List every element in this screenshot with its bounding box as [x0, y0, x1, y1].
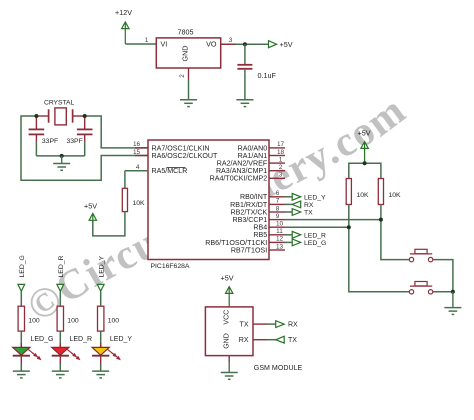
svg-text:VI: VI	[161, 40, 168, 49]
svg-text:+5V: +5V	[280, 40, 293, 49]
wire	[100, 331, 102, 347]
wire R2 down to button2	[349, 205, 410, 292]
resistor R5 100	[57, 306, 63, 331]
wire button1 right	[433, 260, 453, 292]
MCU U1 PIC16F628A	[148, 140, 269, 270]
svg-text:0.1uF: 0.1uF	[258, 71, 277, 80]
svg-text:GSM MODULE: GSM MODULE	[254, 364, 303, 372]
pin 2 stub	[188, 68, 190, 79]
pin 3 wire	[221, 43, 269, 45]
ground	[180, 100, 197, 107]
wire	[20, 331, 22, 347]
power flag +5V (pullups)	[358, 129, 371, 164]
wire	[100, 291, 102, 306]
svg-text:6: 6	[276, 190, 280, 197]
push button S2	[409, 282, 433, 294]
svg-text:PIC16F628A: PIC16F628A	[151, 263, 190, 270]
wire	[20, 291, 22, 306]
capacitor C2 33PF	[29, 116, 59, 156]
svg-text:TX: TX	[240, 322, 249, 329]
svg-text:GND: GND	[224, 333, 231, 349]
pin 13 stub	[269, 249, 285, 251]
svg-text:RX: RX	[239, 337, 249, 344]
svg-text:+5V: +5V	[358, 129, 371, 138]
pin 8 port TX	[269, 209, 313, 217]
port LED_G in	[18, 284, 25, 291]
svg-text:33PF: 33PF	[42, 138, 58, 145]
svg-text:100: 100	[67, 317, 79, 324]
svg-text:+5V: +5V	[221, 274, 234, 283]
pin 16 stub	[135, 147, 148, 149]
svg-text:7: 7	[276, 198, 280, 205]
LED column G	[13, 255, 54, 378]
power flag +5V (GSM)	[221, 274, 234, 307]
watermark	[40, 124, 398, 323]
wire caps bottom	[36, 155, 84, 157]
resistor R6 100	[98, 306, 104, 331]
svg-text:3: 3	[229, 37, 233, 44]
svg-text:10K: 10K	[389, 192, 402, 199]
svg-text:LED_R: LED_R	[304, 232, 326, 239]
svg-text:TX: TX	[304, 210, 313, 217]
pin 10 wire RB4	[285, 226, 349, 228]
svg-text:RA5/MCLR: RA5/MCLR	[152, 167, 188, 175]
svg-text:13: 13	[276, 243, 284, 250]
pin 4 stub	[135, 170, 148, 172]
ground	[52, 371, 69, 378]
port LED_Y in	[97, 284, 104, 291]
wire	[20, 356, 22, 364]
svg-text:10K: 10K	[133, 200, 146, 207]
pin 6 port LED_Y	[269, 193, 326, 201]
svg-text:LED_R: LED_R	[70, 336, 93, 343]
svg-text:10K: 10K	[357, 192, 370, 199]
wire R3 down to button1	[381, 205, 409, 260]
svg-text:2: 2	[279, 164, 283, 171]
svg-text:+12V: +12V	[115, 8, 132, 17]
resistor R2 10K	[346, 179, 369, 205]
wire	[125, 43, 156, 45]
right chip pins 17,18,1,2,3 stubs	[269, 148, 285, 178]
svg-text:LED_Y: LED_Y	[110, 336, 133, 343]
pin 7 port RX	[269, 201, 314, 209]
power flag +5V (MCLR)	[84, 201, 97, 222]
GSM TX port RX	[253, 321, 298, 329]
node junction pin10/R2	[347, 225, 351, 229]
wire	[59, 356, 61, 364]
svg-text:LED_Y: LED_Y	[304, 194, 326, 201]
pin 12 port LED_G	[269, 239, 326, 247]
svg-text:LED_Y: LED_Y	[98, 255, 105, 277]
svg-text:3: 3	[279, 172, 283, 179]
node junction	[243, 42, 247, 46]
svg-text:RX: RX	[288, 322, 298, 329]
svg-text:11: 11	[276, 228, 283, 235]
wire	[59, 331, 61, 347]
svg-text:LED_G: LED_G	[19, 255, 26, 277]
svg-text:CRYSTAL: CRYSTAL	[44, 99, 75, 106]
wire button2 right	[433, 291, 453, 293]
crystal X1	[36, 99, 84, 125]
ground	[13, 371, 30, 378]
svg-text:10: 10	[276, 221, 284, 228]
resistor R4 100	[18, 306, 24, 331]
svg-text:9: 9	[276, 213, 280, 220]
svg-text:15: 15	[133, 149, 141, 156]
resistor R1 10K (MCLR pullup)	[93, 171, 148, 236]
wire pullup top rail	[349, 163, 381, 178]
wire	[59, 291, 61, 306]
wire crystal loop right	[85, 116, 148, 148]
svg-text:VO: VO	[206, 40, 217, 49]
port LED_R in	[57, 284, 64, 291]
pin 15 stub	[135, 155, 148, 157]
svg-text:17: 17	[277, 141, 285, 148]
svg-text:100: 100	[108, 317, 120, 324]
svg-text:7805: 7805	[178, 28, 194, 37]
ground	[444, 292, 461, 315]
GSM ground	[221, 356, 238, 380]
node junction	[363, 161, 367, 165]
svg-text:TX: TX	[288, 337, 297, 344]
ground	[236, 100, 253, 107]
MCLR overline	[167, 166, 186, 168]
svg-text:100: 100	[28, 317, 40, 324]
capacitor C1 0.1uF	[237, 44, 276, 99]
wire	[188, 79, 190, 100]
svg-text:LED_G: LED_G	[304, 240, 326, 247]
svg-text:8: 8	[276, 205, 280, 212]
svg-text:1: 1	[279, 156, 283, 163]
svg-text:GND: GND	[181, 46, 190, 62]
port +5V out	[269, 41, 277, 48]
svg-text:RA4/T0CKI/CMP2: RA4/T0CKI/CMP2	[210, 175, 268, 183]
LED column R	[52, 255, 92, 377]
svg-text:VCC: VCC	[224, 310, 231, 325]
node junction	[451, 290, 455, 294]
push button S1	[409, 249, 433, 261]
svg-text:RB7/T1OSI: RB7/T1OSI	[231, 246, 267, 254]
ground	[92, 371, 109, 378]
wire crystal loop left	[21, 116, 148, 180]
pin 11 port LED_R	[269, 231, 326, 239]
node junctions	[34, 114, 38, 118]
wire	[100, 356, 102, 364]
module GSM	[205, 307, 302, 372]
node junction pin9/R3	[379, 218, 383, 222]
svg-text:18: 18	[277, 149, 285, 156]
resistor R3 10K	[378, 179, 401, 205]
svg-text:LED_G: LED_G	[31, 336, 54, 343]
svg-text:1: 1	[145, 37, 149, 44]
power flag +12V	[115, 8, 132, 44]
svg-text:RA6/OSC2/CLKOUT: RA6/OSC2/CLKOUT	[152, 152, 218, 160]
svg-text:12: 12	[276, 236, 284, 243]
regulator U 7805	[156, 28, 220, 68]
ground	[53, 156, 70, 170]
LED column Y	[92, 255, 132, 377]
svg-text:+5V: +5V	[84, 201, 97, 210]
pin 9 wire RB3	[285, 219, 381, 221]
svg-text:RX: RX	[304, 202, 314, 209]
svg-text:LED_R: LED_R	[58, 255, 65, 277]
svg-text:2: 2	[179, 74, 186, 78]
svg-text:33PF: 33PF	[67, 138, 83, 145]
capacitor C3 33PF	[67, 116, 93, 156]
GSM RX port TX	[253, 336, 297, 344]
svg-text:16: 16	[133, 141, 141, 148]
